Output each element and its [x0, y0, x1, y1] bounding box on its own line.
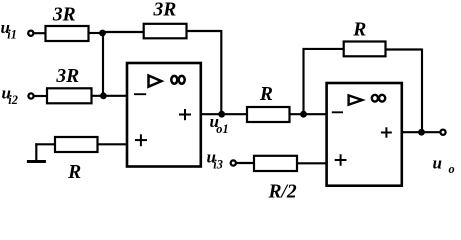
svg-text:R: R: [352, 19, 366, 40]
svg-text:i3: i3: [213, 158, 223, 172]
svg-text:3R: 3R: [55, 66, 79, 87]
svg-text:u: u: [433, 153, 442, 172]
svg-text:o: o: [449, 162, 455, 176]
svg-text:i2: i2: [8, 93, 18, 107]
svg-text:R: R: [259, 84, 273, 105]
svg-text:o1: o1: [216, 122, 228, 136]
svg-text:R: R: [67, 162, 81, 183]
svg-text:i1: i1: [7, 28, 17, 42]
svg-text:R/2: R/2: [268, 182, 297, 203]
svg-text:3R: 3R: [153, 0, 177, 20]
svg-text:3R: 3R: [52, 5, 76, 26]
